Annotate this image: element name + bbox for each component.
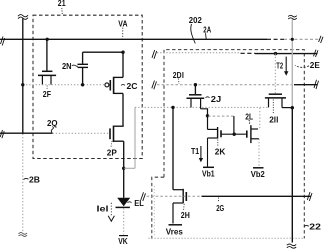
wire: row 3 (y=84.7) gray dashed, 2D net [157,84,294,86]
transistor 2H source stub [173,202,183,204]
svg-text:2C: 2C [127,81,138,91]
transistor 2F channel [38,74,56,76]
transistor 2P drain stub [114,125,124,127]
wire: row 2 (y=52.8) gray dashed + black to right [157,52,241,54]
transistor 2L source stub [251,138,259,140]
label ~2C [121,84,125,87]
transistor 2L drain stub [251,128,258,130]
svg-text:Iel: Iel [97,205,109,214]
transistor 2C drain stub [114,76,123,78]
transistor 2F left stub [41,75,43,84]
wire: 2K gate lead row y=134.2 to 2L gate [221,133,246,135]
junction dot at (123.7,168.3) [122,167,125,170]
junction dot on main rail at x=47.2 [46,38,49,41]
box 202 faint left dotted edge [153,186,155,237]
junction dot at (123,52.2) [121,51,124,54]
wire: LED anode [123,168,125,198]
transistor 2J left stub [190,98,192,107]
wire: 202 net gray dotted y=107.4 [135,106,269,108]
label 2M leader dotted [272,100,274,114]
label 2P leader [111,141,112,147]
label 2G leader dotted [218,198,220,203]
wire: VB column x=292.3 gray upper [291,20,293,108]
terminal bar Vb2 [253,167,264,169]
wire: gray dotted gate net y=84.8 from x=22.8 to 2C circle [23,84,105,86]
transistor 2C source stub [114,92,123,94]
transistor 2P gate bar [109,128,111,139]
svg-text:T1: T1 [191,146,199,156]
label ~2J [206,96,210,99]
svg-text:VK: VK [118,236,128,246]
wire: 2J source jog to 2K column [201,109,208,116]
transistor 2P source stub [114,140,124,142]
capacitor 2N bottom lead [82,68,84,85]
break symbol bottom of 2B line [19,233,28,237]
box 21 (dashed enclosure) [33,15,142,158]
wire: VK lead gray dotted [123,208,125,234]
transistor 2F gate plate [42,70,52,72]
transistor 2J gate plate [189,94,202,96]
wire: black vertical x=233.9 down to 2K gate row [233,116,235,134]
transistor 2K drain stub [208,128,218,130]
wire: 2L drain gray dotted up to 202 net [259,108,261,129]
capacitor 2N top lead [82,52,84,64]
leader for 202 (curved) [191,24,196,44]
diode EL triangle [117,198,130,207]
transistor 2H gate bar [185,192,187,201]
label ~EL [128,201,132,204]
svg-text:2J: 2J [211,94,222,104]
wire: 2H source down to Vres [172,203,174,224]
svg-text:2Q: 2Q [47,118,58,128]
transistor 2L channel bar [250,125,252,143]
leader for 2A [205,33,208,39]
svg-text:Vb1: Vb1 [202,169,215,179]
wire: gray link right from LED node [124,167,135,169]
svg-text:VA: VA [118,19,127,29]
transistor 2J gate lead [194,85,196,95]
svg-text:Vb2: Vb2 [251,169,265,179]
break symbol row2 left [152,50,157,59]
junction dot VB x main rail [291,38,294,41]
svg-text:202: 202 [189,15,202,25]
wire: VB column black lower [291,108,293,243]
transistor 2P channel bar [113,126,115,142]
break symbol row2 right [314,50,319,57]
transistor 2J right stub [200,98,202,109]
wire: vertical line x=22.8 (scan line) [22,19,24,134]
break symbol 2Q row left [0,130,4,138]
wire: 2H drain column x=173 [172,107,174,189]
transistor 2M right stub [281,98,283,108]
wire: gray dashed from (207.5,116.1) to 2L gate column [208,115,234,117]
transistor 2K gate bar [220,130,222,137]
wire: 2G row y=196.3 gray dashed then black [147,195,202,197]
wire: gray vertical x=135 up to 202 net [134,107,136,168]
junction dot at (275.5,53.6) [274,52,277,55]
break symbol row3 left [152,81,157,90]
wire: 2C source to 2P drain [122,93,124,126]
leader for 21 [62,8,63,15]
transistor 2F right stub [50,75,52,84]
break symbol top of x=22.8 line [18,15,28,20]
transistor 2J channel [187,97,205,99]
label 2F leader [46,86,48,91]
transistor 2F gate stub [46,39,48,71]
break symbol 2G right [307,192,312,201]
break symbol main rail right [319,36,323,43]
junction dot at (22.8,84.8) [21,83,24,86]
svg-text:2E: 2E [310,60,320,70]
label 2B with hook [24,178,29,179]
wire: branch y=52.2 from cap 2N to VA column [83,51,123,53]
transistor 2M gate plate [269,93,282,95]
transistor 2M gate lead (gray dotted from dot at row2) [274,54,276,94]
terminal bar Vres [169,224,183,226]
svg-text:Vres: Vres [166,226,183,236]
svg-text:2P: 2P [107,147,117,157]
svg-text:2B: 2B [29,175,40,185]
svg-text:2K: 2K [215,146,226,156]
capacitor 2N top plate [78,63,89,65]
transistor 2M channel [265,97,286,99]
junction dot at (234.2,134.2) [233,133,236,136]
transistor 2L gate bar [246,131,248,138]
break symbol VB top [288,15,297,19]
box 2A (dashed enclosure, notched bottom-left) [164,50,304,239]
svg-text:2ll: 2ll [269,115,278,125]
svg-text:2N: 2N [62,61,72,71]
svg-text:2D: 2D [173,70,182,80]
transistor 2H drain stub [173,189,183,191]
diode EL cathode bar [116,206,130,208]
svg-text:T2: T2 [276,61,283,71]
label ~22 [304,225,309,226]
transistor 2C bubble [105,83,109,87]
transistor 2C gate bar [109,80,111,91]
wire: 2P source down to LED node [123,141,125,168]
break symbol main rail left [1,37,5,46]
svg-text:22: 22 [309,222,321,232]
wire: 2Q row gray dotted to 2P gate [53,132,111,134]
wire: VA column drain segment [122,52,124,77]
break symbol 2G left [141,192,146,201]
svg-text:2A: 2A [203,24,211,34]
junction dot at (82.6,84.8) [81,83,84,86]
label 2H leader dotted [183,204,186,210]
svg-text:EL: EL [134,198,144,208]
terminal bar Vb1 [203,166,214,168]
wire: main top rail VA row y=39.3 [0,38,267,40]
break symbol VB bottom [287,244,296,248]
svg-text:2H: 2H [181,210,190,220]
wire: 2K source down to Vb1 [207,138,209,167]
wire: 2Q row y=133.2 black part [0,132,53,134]
svg-text:2G: 2G [216,203,224,213]
terminal tick VK [119,235,128,237]
transistor 2K channel bar [217,127,219,139]
wire: 2K drain column [207,116,209,130]
junction dot at (173,107.4) [171,106,174,109]
svg-text:21: 21 [58,0,66,8]
transistor 2K source stub [208,137,218,139]
transistor 2H channel bar [182,189,184,203]
box 202 gray dotted bottom edge [149,237,304,239]
capacitor 2N bottom plate [78,66,89,68]
wire: 2L source gray dotted down to Vb2 [258,139,260,167]
leader VA (dotted) [122,28,124,39]
label 2K leader dotted [217,140,219,147]
junction dot VB at 202 net [291,106,294,109]
break symbol row3 right [314,80,319,89]
transistor 2M left stub [268,98,270,108]
transistor 2C channel bar [113,77,115,94]
svg-text:2F: 2F [43,89,51,99]
wire: 2M right stub to VB [282,107,292,109]
junction dot at (195.4,84.7) [194,83,197,86]
junction dot at (207.5,115.8) [206,114,209,117]
